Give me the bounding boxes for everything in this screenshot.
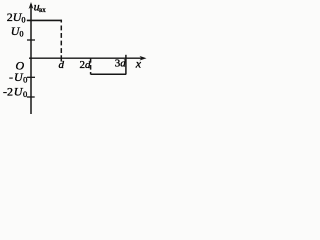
negative pulse left side (broken/dashed) at x=2d	[90, 58, 92, 74]
svg-text:x: x	[135, 57, 142, 71]
svg-text:d: d	[59, 59, 65, 71]
x-axis (horizontal axis)	[29, 57, 143, 59]
svg-text:вх: вх	[39, 6, 46, 14]
dashed vertical at x=d	[60, 20, 62, 62]
tick -2U0 on y-axis	[27, 96, 35, 98]
y-axis (vertical axis)	[30, 4, 32, 114]
svg-text:2d: 2d	[80, 59, 92, 71]
tick U0 on y-axis	[27, 39, 35, 41]
y-axis arrowhead	[29, 2, 34, 9]
tick -U0 on y-axis	[27, 76, 35, 78]
svg-text:3d: 3d	[115, 58, 127, 70]
negative pulse bottom at -U0 level	[91, 73, 127, 75]
x-axis arrowhead	[140, 56, 147, 61]
pulse top at 2U0 from axis to d (with tick overhang left of axis)	[27, 19, 62, 21]
background	[0, 0, 151, 117]
negative pulse right side at x=3d	[125, 55, 127, 75]
